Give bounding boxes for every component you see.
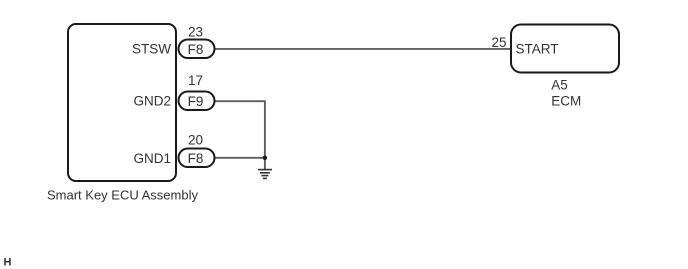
pin 23 connector F8 oval <box>179 40 215 59</box>
pin 17 connector F9 oval <box>179 92 215 111</box>
ECM box <box>511 25 619 73</box>
svg-text:A5: A5 <box>551 77 568 92</box>
svg-text:GND1: GND1 <box>133 151 171 166</box>
svg-text:F8: F8 <box>188 151 204 166</box>
svg-text:STSW: STSW <box>132 41 171 56</box>
wire STSW to ECM <box>213 48 511 50</box>
ground <box>258 170 272 179</box>
svg-text:F9: F9 <box>188 94 204 109</box>
pin 20 connector F8 oval <box>179 149 215 168</box>
svg-text:H: H <box>4 257 12 269</box>
svg-text:GND2: GND2 <box>133 93 171 108</box>
wire GND2 to ground node <box>213 101 265 169</box>
svg-text:25: 25 <box>491 35 506 50</box>
svg-text:20: 20 <box>188 132 203 147</box>
svg-text:ECM: ECM <box>551 93 581 108</box>
junction dot <box>263 156 267 160</box>
svg-text:Smart Key ECU Assembly: Smart Key ECU Assembly <box>47 188 198 203</box>
svg-text:23: 23 <box>188 24 203 39</box>
Smart Key ECU Assembly box <box>68 24 176 181</box>
svg-text:17: 17 <box>188 73 203 88</box>
wire GND1 to junction <box>213 157 265 159</box>
svg-text:START: START <box>516 42 559 57</box>
svg-text:F8: F8 <box>188 42 204 57</box>
